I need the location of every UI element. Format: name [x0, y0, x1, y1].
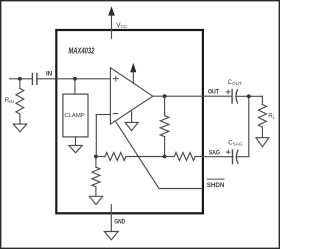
wire RIN bottom stem: [19, 114, 21, 124]
resistor node B to SAG pin: [174, 153, 195, 161]
ground below node A resistor: [90, 196, 103, 204]
node output junction: [163, 94, 167, 98]
op-amp - symbol: [113, 113, 118, 115]
wire IN to op-amp +: [37, 78, 111, 80]
resistor RIN: [16, 88, 24, 114]
wire feedback resistor bottom stem: [164, 137, 166, 157]
wire RIN top stem: [19, 79, 21, 89]
wire input from left: [10, 78, 33, 80]
wire SAG pin inside: [195, 156, 203, 158]
capacitor COUT curved plate: [236, 90, 238, 103]
svg-text:IN: IN: [46, 71, 53, 78]
wire RL top stem: [261, 96, 263, 104]
wire clamp stem top: [74, 79, 76, 94]
node input junction: [18, 77, 22, 81]
wire ground resistor bottom stem: [95, 187, 97, 196]
IC box U1 (MAX4032 outline): [56, 30, 203, 213]
resistor feedback (output to node B): [160, 116, 169, 137]
resistor node A to ground: [92, 167, 100, 187]
wire GND stem: [110, 205, 112, 232]
wire VCC stub: [111, 14, 113, 39]
wire node B to SAG resistor: [165, 156, 175, 158]
svg-text:CLAMP: CLAMP: [64, 113, 84, 119]
node output load junction: [247, 94, 251, 98]
wire RL bottom stem: [261, 127, 263, 138]
wire - input down to feedback node: [95, 115, 97, 157]
ground below RL: [256, 138, 269, 147]
power VCC arrow: [108, 6, 115, 15]
node A feedback junction: [94, 155, 98, 159]
ground below RIN: [13, 124, 26, 132]
wire SHDN diagonal: [116, 121, 202, 188]
wire ground resistor top stem: [95, 157, 97, 168]
wire SAG row outside: [203, 156, 232, 158]
svg-text:MAX4032: MAX4032: [68, 46, 94, 55]
svg-text:GND: GND: [114, 219, 125, 226]
capacitor COUT polarity mark: [226, 90, 230, 94]
resistor RL: [258, 105, 266, 128]
op-amp U1 triangle: [110, 68, 152, 125]
svg-text:SAG: SAG: [209, 150, 220, 157]
resistor node A to node B: [105, 153, 126, 161]
wire node A to resistor: [96, 156, 105, 158]
wire feedback resistor top stem: [164, 96, 166, 116]
clamp block: [63, 94, 88, 137]
wire clamp stem bottom: [75, 137, 77, 146]
capacitor input coupling: [32, 73, 37, 84]
capacitor CSAG curved plate: [236, 150, 238, 163]
wire COUT to load: [236, 95, 262, 97]
svg-text:SHDN: SHDN: [207, 182, 225, 189]
op-amp + symbol: [113, 76, 118, 81]
ground op-amp: [125, 122, 138, 130]
wire output row: [153, 95, 232, 97]
wire op-amp power stem: [132, 72, 134, 84]
ground below clamp: [69, 145, 82, 152]
power arrow op-amp supply: [130, 63, 136, 73]
ground GND main: [104, 232, 118, 240]
node B junction: [163, 155, 167, 159]
wire CSAG up to output node: [237, 96, 249, 156]
svg-text:OUT: OUT: [208, 89, 219, 96]
capacitor CSAG plus plate: [232, 150, 234, 164]
capacitor COUT plus plate: [231, 90, 233, 104]
wire - input horizontal: [96, 114, 110, 116]
node clamp junction: [73, 77, 77, 81]
label SHDN overline: [207, 178, 224, 180]
wire op-amp ground stem: [131, 112, 133, 123]
capacitor CSAG polarity mark: [227, 150, 231, 154]
wire resistor to node B: [126, 156, 165, 158]
